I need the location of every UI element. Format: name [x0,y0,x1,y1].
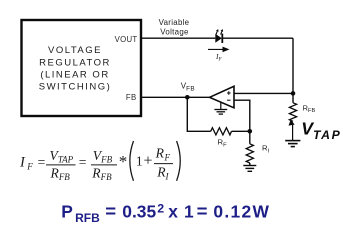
svg-text:REGULATOR: REGULATOR [39,57,111,68]
label Variable Voltage [159,18,190,36]
svg-text:1: 1 [136,153,143,168]
svg-text:+: + [144,153,153,170]
wire RF to node [232,130,250,132]
resistor RF [211,128,232,135]
node RF/RI junction [248,129,253,134]
ground under RFB (VTAP ground) [285,141,300,147]
voltage regulator box U1 [22,20,142,116]
svg-text:=: = [38,154,46,169]
svg-text:Voltage: Voltage [160,27,189,36]
svg-text:SWITCHING): SWITCHING) [39,81,112,92]
svg-text:P: P [61,201,73,221]
VTAP arrow on wire below RFB [289,119,295,140]
svg-text:0.12W: 0.12W [213,201,270,221]
ground under RI [243,166,256,172]
wire right rail vertical (top to RFB node) [292,38,294,103]
op-amp U2 [210,86,234,108]
svg-text:*: * [119,152,128,171]
svg-text:F: F [26,162,33,172]
svg-text:1: 1 [184,201,194,221]
wire FB pin to op-amp output [141,96,210,98]
wire op-amp + input to right rail [234,92,293,94]
wire diode cathode to right rail [223,37,294,39]
wire op-amp - input over to RF/RI node [234,100,250,131]
formula IF equation [19,141,180,182]
svg-text:2: 2 [157,201,164,215]
svg-text:VOUT: VOUT [115,35,138,44]
svg-text:=: = [197,201,208,222]
wire VOUT to diode anode [141,37,215,39]
svg-text:VOLTAGE: VOLTAGE [48,45,102,56]
LED D1 [215,29,223,43]
current arrow IF [208,47,230,53]
node junction at RFB top [291,91,296,96]
result text PRFB [61,201,270,225]
node VFB junction [185,95,190,100]
svg-text:0.35: 0.35 [122,201,156,221]
svg-text:=: = [79,154,87,169]
svg-text:x: x [168,201,178,221]
svg-text:FB: FB [126,93,137,102]
svg-text:=: = [105,201,116,222]
svg-text:Variable: Variable [159,18,190,27]
wire VFB node down to RF [187,97,210,131]
resistor RI [246,131,253,165]
ground under op-amp [214,102,227,114]
svg-text:RFB: RFB [75,211,100,225]
svg-text:(LINEAR OR: (LINEAR OR [40,69,109,80]
resistor RFB [289,103,296,122]
